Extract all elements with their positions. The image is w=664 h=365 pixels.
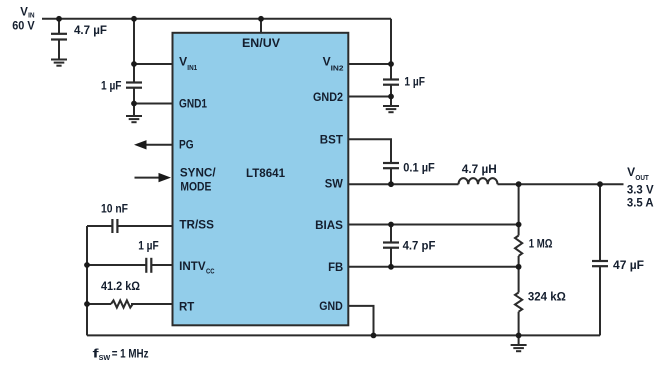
ground at divider xyxy=(511,345,527,351)
node FB cap junction xyxy=(388,264,394,270)
capacitor C4 0.1uF boost xyxy=(383,163,399,184)
wire bottom ground rail xyxy=(87,334,600,336)
node VIN label xyxy=(12,7,35,33)
svg-text:V: V xyxy=(627,167,635,179)
resistor R2 324kOhm xyxy=(515,293,522,312)
svg-text:GND2: GND2 xyxy=(313,92,343,104)
wire GND2 ground stub xyxy=(390,97,392,106)
svg-text:OUT: OUT xyxy=(635,173,649,182)
value label fSW xyxy=(93,349,149,363)
node SW junction xyxy=(388,181,394,187)
svg-text:0.1 µF: 0.1 µF xyxy=(403,162,435,174)
svg-text:LT8641: LT8641 xyxy=(246,168,286,180)
capacitor C8 1uF INTVCC xyxy=(146,258,151,273)
svg-text:RT: RT xyxy=(179,301,194,313)
node GND2 junction xyxy=(388,94,394,100)
svg-text:10 nF: 10 nF xyxy=(101,204,128,216)
wire SW to inductor xyxy=(348,183,459,185)
svg-text:IN2: IN2 xyxy=(331,64,344,73)
svg-text:47 µF: 47 µF xyxy=(613,260,644,272)
node divider ground junction xyxy=(516,333,522,339)
pin VIN2 xyxy=(323,57,344,73)
wire INTVCC left xyxy=(87,264,146,266)
resistor R3 41.2kOhm xyxy=(111,300,133,307)
wire VIN2 to IC xyxy=(348,63,392,65)
wire VOUT rail xyxy=(498,183,624,185)
wire top input rail xyxy=(42,18,391,20)
wire TR/SS left xyxy=(87,225,112,227)
svg-text:1 MΩ: 1 MΩ xyxy=(529,239,553,251)
capacitor C2 1uF left xyxy=(126,64,142,104)
wire VIN1 to IC xyxy=(134,63,173,65)
wire left rail xyxy=(86,226,88,335)
svg-text:SW: SW xyxy=(325,179,343,191)
node INTVCC left junction xyxy=(84,262,90,268)
wire RT to IC xyxy=(131,303,173,305)
wire BST xyxy=(348,139,392,162)
wire VIN2 drop xyxy=(390,19,392,64)
node BIAS divider junction xyxy=(516,222,522,228)
arrow PG output xyxy=(134,140,147,149)
svg-text:SYNC/: SYNC/ xyxy=(180,168,217,180)
wire TR/SS to IC xyxy=(117,225,173,227)
svg-text:SW: SW xyxy=(99,353,111,362)
wire GND2 to IC xyxy=(348,96,392,98)
node FB divider junction xyxy=(516,264,522,270)
svg-text:GND1: GND1 xyxy=(179,99,208,111)
node VOUT cap junction xyxy=(597,181,603,187)
wire SYNC/MODE xyxy=(135,177,160,179)
svg-text:IN1: IN1 xyxy=(187,63,197,72)
capacitor C7 10nF xyxy=(112,219,117,233)
capacitor C5 4.7pF xyxy=(383,225,399,267)
svg-text:PG: PG xyxy=(179,140,194,152)
node VIN1 top junction xyxy=(131,16,137,22)
node VIN1 junction xyxy=(131,61,137,67)
svg-text:1 µF: 1 µF xyxy=(101,80,122,92)
wire divider middle xyxy=(518,256,520,293)
wire BIAS xyxy=(348,224,519,226)
node BIAS cap junction xyxy=(388,222,394,228)
svg-text:BIAS: BIAS xyxy=(315,220,343,232)
wire FB xyxy=(348,266,519,268)
pin INTVCC xyxy=(179,261,215,275)
svg-text:IN: IN xyxy=(28,10,34,19)
node VIN2 junction xyxy=(388,61,394,67)
arrow SYNC/MODE input xyxy=(159,173,172,182)
svg-text:3.3 V: 3.3 V xyxy=(627,184,654,196)
svg-text:BST: BST xyxy=(320,135,343,147)
wire RT left xyxy=(87,303,111,305)
svg-text:GND: GND xyxy=(319,301,343,313)
pin SYNC/MODE xyxy=(180,168,217,194)
wire VIN1 drop xyxy=(133,19,135,64)
node EN/UV junction xyxy=(258,16,264,22)
wire ground stub bottom xyxy=(518,335,520,344)
svg-text:INTV: INTV xyxy=(179,261,206,273)
node GND1 junction xyxy=(131,101,137,107)
svg-text:4.7 µH: 4.7 µH xyxy=(462,164,497,176)
svg-text:3.5 A: 3.5 A xyxy=(627,197,654,209)
inductor L1 4.7uH xyxy=(459,178,498,184)
svg-text:= 1 MHz: = 1 MHz xyxy=(112,349,149,361)
svg-text:324 kΩ: 324 kΩ xyxy=(528,292,566,304)
node input junction C1 xyxy=(56,16,62,22)
svg-text:V: V xyxy=(179,56,187,68)
wire divider bottom xyxy=(518,312,520,336)
svg-text:60 V: 60 V xyxy=(12,20,35,32)
capacitor C6 47uF output xyxy=(592,184,608,335)
node VOUT divider junction xyxy=(516,181,522,187)
pin VIN1 xyxy=(179,56,197,72)
capacitor C1 4.7uF input xyxy=(51,19,67,59)
ground at GND1 xyxy=(126,116,142,122)
svg-text:MODE: MODE xyxy=(180,181,211,193)
svg-text:4.7 µF: 4.7 µF xyxy=(74,25,107,37)
node VOUT label xyxy=(627,167,654,209)
svg-text:TR/SS: TR/SS xyxy=(179,220,214,232)
svg-text:V: V xyxy=(20,7,28,19)
wire GND1 ground stub xyxy=(133,104,135,116)
op-amp U1 LT8641 IC body xyxy=(173,33,349,326)
wire VOUT to divider xyxy=(518,184,520,235)
node RT left junction xyxy=(84,301,90,307)
wire GND pin to rail xyxy=(348,306,374,336)
wire INTVCC to IC xyxy=(151,264,173,266)
svg-text:1 µF: 1 µF xyxy=(404,76,425,88)
node GND rail junction xyxy=(371,333,377,339)
svg-text:EN/UV: EN/UV xyxy=(242,38,280,50)
wire GND1 to IC xyxy=(134,103,173,105)
svg-text:41.2 kΩ: 41.2 kΩ xyxy=(101,281,140,293)
ground at GND2 xyxy=(383,106,399,112)
wire EN/UV drop xyxy=(260,19,262,33)
svg-text:4.7 pF: 4.7 pF xyxy=(403,240,436,252)
ground at C1 xyxy=(51,60,67,66)
svg-text:1 µF: 1 µF xyxy=(138,241,159,253)
svg-text:FB: FB xyxy=(328,262,343,274)
svg-text:CC: CC xyxy=(206,266,215,275)
capacitor C3 1uF right xyxy=(383,64,399,97)
wire PG xyxy=(146,144,173,146)
resistor R1 1MOhm xyxy=(515,236,522,256)
